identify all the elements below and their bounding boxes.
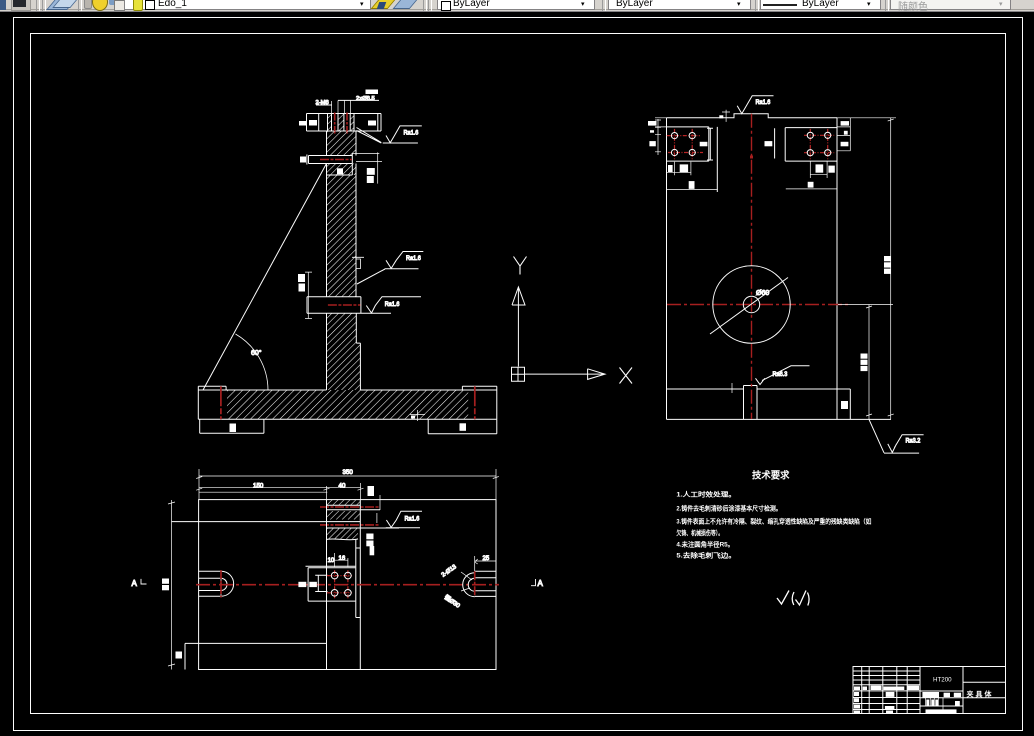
svg-text:镪Ø30: 镪Ø30 xyxy=(443,593,462,610)
60 degree arc xyxy=(236,334,269,390)
svg-text:Ra3.2: Ra3.2 xyxy=(906,438,921,445)
flange bolt centerlines xyxy=(335,113,347,134)
right group bolts xyxy=(804,129,834,159)
svg-text:1.人工时效处理。: 1.人工时效处理。 xyxy=(676,490,736,499)
title block xyxy=(853,667,1006,714)
svg-text:10: 10 xyxy=(328,558,335,564)
right counterbored hole xyxy=(475,571,497,596)
Ra1.6 in plan xyxy=(386,511,422,528)
left vertical dim Ø40 xyxy=(305,272,312,318)
svg-text:2-Ø13: 2-Ø13 xyxy=(441,564,459,579)
cross hole 1 xyxy=(307,153,352,175)
left group lower dims xyxy=(667,162,718,190)
base feet below xyxy=(200,419,497,433)
column verticals xyxy=(327,500,361,670)
bolt square dims xyxy=(335,553,348,567)
svg-text:HT200: HT200 xyxy=(933,677,952,684)
flange hatch xyxy=(328,114,355,132)
base plate xyxy=(198,386,497,419)
flange dim texts xyxy=(309,120,317,126)
UCS icon xyxy=(512,257,633,384)
left dim column xyxy=(655,118,667,155)
column lower hatch xyxy=(327,313,357,343)
25 dim xyxy=(475,556,497,571)
Ra1.6 top of side view xyxy=(737,96,773,114)
right dim bracket xyxy=(837,118,851,151)
Ra1.6 top xyxy=(357,126,422,143)
horizontal centerline xyxy=(667,304,849,306)
hole1 dim extensions xyxy=(352,152,382,183)
svg-text:60°: 60° xyxy=(251,349,262,357)
svg-text:欠铸、机械损伤等）。: 欠铸、机械损伤等）。 xyxy=(676,528,723,537)
svg-text:A: A xyxy=(538,579,544,588)
layer combo field xyxy=(124,0,371,10)
svg-text:4.未注圆角半径R5。: 4.未注圆角半径R5。 xyxy=(676,540,734,549)
right dims xyxy=(837,118,896,420)
outline xyxy=(199,500,496,670)
bottom strip xyxy=(667,386,892,420)
technical requirements xyxy=(676,469,871,560)
Ra6.3 at bottom slot xyxy=(756,366,810,385)
svg-text:5.去除毛刺飞边。: 5.去除毛刺飞边。 xyxy=(676,551,736,560)
left group bolts xyxy=(667,129,703,159)
bolt square xyxy=(306,566,356,601)
flange outline xyxy=(307,114,382,132)
svg-text:2xØ8.5: 2xØ8.5 xyxy=(356,96,375,102)
svg-text:16: 16 xyxy=(339,556,346,562)
svg-text:夹具体: 夹具体 xyxy=(967,690,994,699)
cross hole 2 xyxy=(307,297,391,314)
top dims 350 / 150 / 40 xyxy=(196,469,499,500)
column upper hatch xyxy=(327,131,357,156)
left bolt group box xyxy=(667,127,718,192)
diagonal brace xyxy=(203,164,327,391)
svg-text:350: 350 xyxy=(343,469,354,476)
roughness marks at bottom xyxy=(777,591,809,606)
U slot xyxy=(199,571,234,596)
side view xyxy=(648,96,924,453)
svg-text:Ra6.3: Ra6.3 xyxy=(773,371,788,378)
right bolt group box xyxy=(775,128,837,162)
svg-text:Ra1.6: Ra1.6 xyxy=(405,516,420,523)
svg-text:Ra1.6: Ra1.6 xyxy=(404,130,419,137)
svg-text:3.铸件表面上不允许有冷隔、裂纹、缩孔穿透性缺陷及严重的残缺: 3.铸件表面上不允许有冷隔、裂纹、缩孔穿透性缺陷及严重的残缺类缺陷（如 xyxy=(676,517,871,526)
svg-text:Ø60: Ø60 xyxy=(756,290,769,297)
plan bolts xyxy=(327,570,352,599)
svg-text:2.铸件去毛刺清砂后涂漆基本尺寸检测。: 2.铸件去毛刺清砂后涂漆基本尺寸检测。 xyxy=(676,504,781,513)
strip right dims xyxy=(377,495,380,523)
svg-text:Ra1.6: Ra1.6 xyxy=(406,255,421,262)
left dim 240 xyxy=(168,500,175,670)
small dim at base right xyxy=(410,410,425,421)
hatch strip (A-A cut) xyxy=(327,500,361,505)
front section view xyxy=(198,90,497,434)
Ra3.2 bottom right xyxy=(869,419,924,453)
base bolt centerlines xyxy=(221,386,475,419)
column right step boss xyxy=(352,257,364,268)
svg-text:25: 25 xyxy=(483,556,490,562)
hatch strip under hole1 xyxy=(327,164,357,176)
toolbar strip (AutoCAD layers & properties toolbars, clipped) xyxy=(0,0,1034,12)
svg-text:技术要求: 技术要求 xyxy=(752,469,790,482)
svg-text:A: A xyxy=(132,579,138,588)
main horizontal centerline xyxy=(196,584,499,586)
right group lower dims xyxy=(786,161,837,189)
bottom left step xyxy=(185,643,327,669)
svg-text:Ra1.6: Ra1.6 xyxy=(756,99,771,106)
Ra1.6 mid xyxy=(357,252,423,285)
svg-text:2-M8: 2-M8 xyxy=(316,100,329,106)
main outline with top tab xyxy=(667,114,838,420)
big bore circle xyxy=(713,266,790,343)
vertical centerline xyxy=(750,114,753,419)
svg-text:40: 40 xyxy=(339,482,346,489)
svg-text:Ra1.6: Ra1.6 xyxy=(385,301,400,308)
main column hatch xyxy=(327,175,357,297)
Ra1.6 lower xyxy=(366,297,421,313)
top dims 2-M8 / 2xØ8.5 xyxy=(332,101,351,114)
svg-text:150: 150 xyxy=(253,482,264,489)
plan view xyxy=(132,469,544,670)
